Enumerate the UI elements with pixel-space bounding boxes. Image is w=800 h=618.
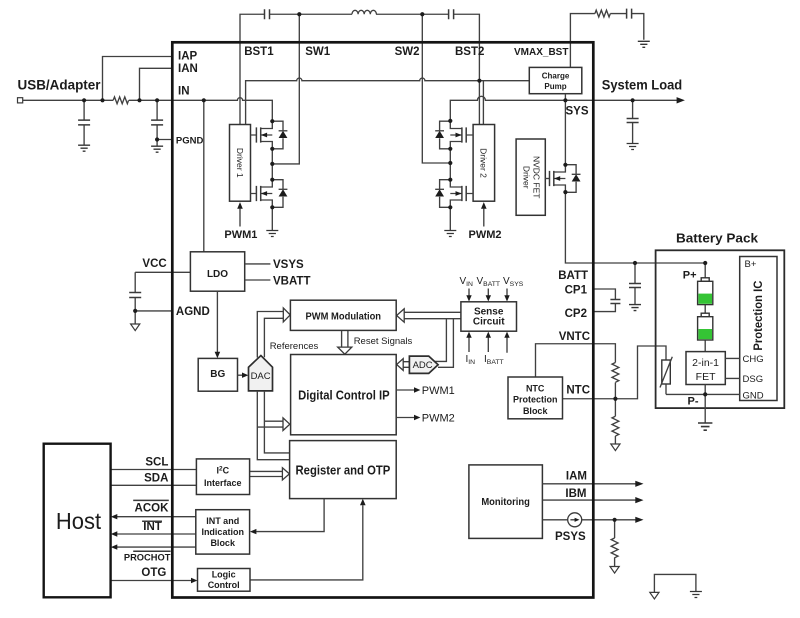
svg-text:Protection: Protection	[513, 395, 558, 405]
svg-text:VMAX_BST: VMAX_BST	[514, 47, 568, 58]
svg-text:NTC: NTC	[566, 384, 590, 396]
svg-text:BST1: BST1	[244, 46, 274, 58]
svg-text:GND: GND	[743, 390, 764, 401]
svg-text:CP2: CP2	[565, 308, 587, 320]
svg-text:SCL: SCL	[145, 456, 168, 468]
svg-text:Control: Control	[208, 580, 240, 590]
svg-text:IN: IN	[178, 86, 190, 98]
svg-text:P+: P+	[683, 269, 697, 281]
svg-text:Register and OTP: Register and OTP	[296, 462, 391, 477]
svg-text:BG: BG	[210, 369, 225, 380]
svg-text:PWM1: PWM1	[422, 385, 455, 397]
svg-text:Indication: Indication	[201, 527, 244, 537]
svg-text:Driver 2: Driver 2	[479, 148, 489, 178]
svg-text:DAC: DAC	[251, 371, 271, 382]
svg-text:Pump: Pump	[544, 82, 566, 91]
svg-text:USB/Adapter: USB/Adapter	[18, 76, 102, 92]
svg-text:Block: Block	[210, 538, 236, 548]
svg-text:System Load: System Load	[602, 77, 683, 93]
svg-text:Monitoring: Monitoring	[481, 497, 530, 508]
svg-text:VCC: VCC	[142, 258, 166, 270]
svg-text:AGND: AGND	[176, 306, 210, 318]
svg-text:Host: Host	[56, 508, 102, 534]
svg-text:INT: INT	[143, 521, 162, 533]
svg-text:2-in-1: 2-in-1	[692, 357, 719, 369]
svg-text:Digital Control IP: Digital Control IP	[298, 388, 390, 402]
svg-text:SDA: SDA	[144, 472, 168, 484]
svg-text:ADC: ADC	[413, 360, 433, 371]
svg-text:VNTC: VNTC	[559, 331, 590, 343]
svg-text:Circuit: Circuit	[473, 317, 505, 328]
svg-text:INT and: INT and	[206, 516, 239, 526]
svg-text:Block: Block	[523, 406, 549, 416]
svg-text:SYS: SYS	[565, 105, 588, 117]
svg-text:PROCHOT: PROCHOT	[124, 552, 171, 562]
svg-text:PWM2: PWM2	[469, 229, 502, 241]
svg-text:CHG: CHG	[743, 354, 764, 365]
svg-text:SW2: SW2	[395, 46, 420, 58]
svg-text:ACOK: ACOK	[135, 502, 170, 514]
svg-text:PWM2: PWM2	[422, 413, 455, 425]
svg-text:I2C: I2C	[216, 466, 229, 476]
svg-text:SW1: SW1	[305, 46, 331, 58]
svg-text:VSYS: VSYS	[273, 259, 304, 271]
svg-text:Logic: Logic	[212, 570, 236, 580]
svg-text:PWM Modulation: PWM Modulation	[306, 311, 382, 323]
svg-text:NVDC FET: NVDC FET	[532, 156, 542, 199]
svg-text:Reset Signals: Reset Signals	[354, 336, 413, 347]
svg-text:References: References	[270, 341, 319, 352]
svg-text:IBM: IBM	[565, 488, 586, 500]
svg-text:Driver: Driver	[522, 166, 532, 189]
svg-text:PWM1: PWM1	[224, 229, 257, 241]
svg-text:LDO: LDO	[207, 269, 228, 280]
svg-text:PGND: PGND	[176, 135, 204, 146]
svg-text:NTC: NTC	[526, 383, 545, 393]
svg-text:PSYS: PSYS	[555, 531, 586, 543]
svg-text:OTG: OTG	[141, 567, 166, 579]
svg-text:CP1: CP1	[565, 285, 588, 297]
svg-text:IAN: IAN	[178, 63, 198, 75]
svg-text:IAP: IAP	[178, 50, 198, 62]
svg-text:Driver 1: Driver 1	[235, 148, 245, 178]
svg-text:BST2: BST2	[455, 46, 484, 58]
svg-text:VBATT: VBATT	[273, 276, 310, 288]
svg-text:DSG: DSG	[743, 374, 764, 385]
svg-text:Battery Pack: Battery Pack	[676, 230, 759, 245]
svg-text:FET: FET	[696, 371, 716, 383]
svg-text:Charge: Charge	[542, 72, 570, 81]
svg-text:B+: B+	[745, 259, 757, 270]
svg-text:IAM: IAM	[566, 471, 587, 483]
svg-text:P-: P-	[688, 395, 699, 407]
svg-text:Protection IC: Protection IC	[751, 280, 765, 350]
svg-text:Interface: Interface	[204, 478, 242, 488]
svg-text:BATT: BATT	[558, 270, 588, 282]
